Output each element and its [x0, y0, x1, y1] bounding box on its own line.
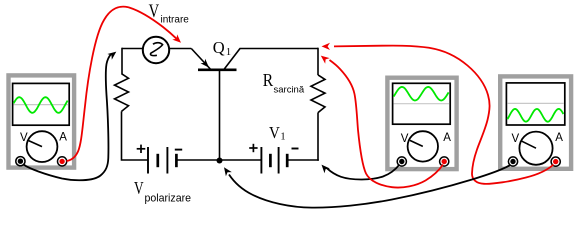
meter1 (left oscilloscope-meter) needle	[29, 141, 42, 147]
battery Vpolarizare minus sign	[175, 149, 182, 151]
svg-text:V: V	[269, 123, 280, 142]
meter2 (middle oscilloscope-meter) body	[387, 78, 456, 169]
svg-text:V: V	[134, 178, 144, 198]
probe wire black: left meter black jack to top-left node	[24, 54, 112, 180]
svg-text:intrare: intrare	[161, 15, 190, 26]
meter2 (middle oscilloscope-meter) dial	[408, 131, 438, 161]
wire left vertical lower	[122, 111, 149, 160]
resistor (source internal) zigzag	[115, 74, 129, 112]
svg-text:1: 1	[280, 132, 285, 143]
svg-text:A: A	[59, 132, 67, 144]
probe wire black: middle meter black jack to collector node	[327, 165, 400, 180]
meter1 (left oscilloscope-meter) dial	[27, 131, 58, 162]
meter3 (right oscilloscope-meter) red jack	[551, 157, 560, 166]
svg-text:1: 1	[226, 47, 231, 58]
wire V1 to bottom-right corner	[287, 159, 319, 161]
wire left vertical upper	[121, 48, 123, 74]
meter3 (right oscilloscope-meter) waveform trace	[507, 109, 563, 122]
meter3 (right oscilloscope-meter) black jack	[508, 157, 517, 166]
transistor base wire down	[219, 71, 221, 160]
meter2 (middle oscilloscope-meter) screen centerline	[394, 103, 450, 105]
battery V1 minus sign	[292, 148, 299, 150]
meter1 (left oscilloscope-meter) waveform trace	[14, 97, 68, 113]
wire source to emitter	[169, 48, 191, 50]
meter3 (right oscilloscope-meter) screen centerline	[507, 102, 563, 104]
meter1 (left oscilloscope-meter) screen	[13, 83, 70, 125]
AC source Vintrare circle	[143, 37, 169, 63]
transistor Q1 collector lead	[224, 49, 240, 70]
probe wire red: middle meter red jack to top-right node	[330, 60, 444, 188]
battery Vpolarizare plates	[147, 147, 149, 174]
battery Vpolarizare plus sign	[137, 148, 146, 150]
AC source sine glyph	[150, 43, 162, 56]
battery V1 plates	[260, 147, 262, 174]
svg-text:V: V	[512, 133, 520, 145]
meter2 (middle oscilloscope-meter) screen	[393, 83, 451, 124]
meter1 (left oscilloscope-meter) screen centerline	[14, 104, 69, 106]
meter2 (middle oscilloscope-meter) waveform trace	[394, 87, 449, 101]
svg-text:sarcină: sarcină	[274, 85, 305, 96]
probe wire red: right meter red jack to top-right node (long)	[334, 46, 554, 184]
wire collector to top-right	[240, 48, 319, 50]
meter3 (right oscilloscope-meter) body	[500, 76, 571, 168]
probe wire black: right meter black jack to junction node (long)	[229, 165, 511, 208]
svg-text:A: A	[555, 132, 563, 144]
meter1 (left oscilloscope-meter) black jack	[16, 157, 25, 166]
meter1 (left oscilloscope-meter) body	[9, 75, 75, 167]
meter1 (left oscilloscope-meter) red jack	[58, 157, 67, 166]
svg-text:V: V	[149, 2, 160, 22]
meter3 (right oscilloscope-meter) needle	[522, 141, 536, 148]
battery V1 plus sign	[249, 147, 257, 149]
meter3 (right oscilloscope-meter) dial	[519, 132, 552, 165]
meter2 (middle oscilloscope-meter) black jack	[397, 157, 406, 166]
svg-text:A: A	[443, 132, 451, 144]
meter3 (right oscilloscope-meter) screen	[506, 83, 564, 125]
wire right vertical upper	[317, 48, 319, 75]
wire right vertical lower	[317, 113, 319, 161]
wire top-left segment	[122, 48, 143, 50]
resistor Rsarcina zigzag	[311, 75, 325, 113]
svg-text:R: R	[263, 70, 273, 90]
probe wire red: left meter red jack to Vintrare point	[67, 7, 177, 161]
meter2 (middle oscilloscope-meter) needle	[410, 140, 423, 146]
transistor Q1 base bar	[198, 69, 237, 72]
transistor Q1 emitter lead	[191, 49, 210, 70]
meter2 (middle oscilloscope-meter) red jack	[440, 157, 449, 166]
wire battery to junction	[176, 159, 261, 161]
junction node dot	[217, 158, 223, 164]
transistor Q1 emitter arrow (PNP)	[201, 59, 210, 68]
svg-text:polarizare: polarizare	[145, 192, 192, 204]
svg-text:Q: Q	[213, 38, 225, 57]
